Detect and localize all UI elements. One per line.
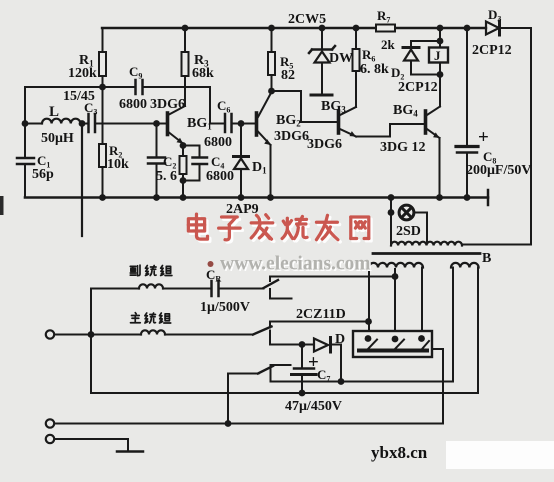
transistor BG3 base bar: [337, 111, 341, 133]
junction dot: [437, 71, 444, 78]
wire secondary right winding left end down: [452, 268, 454, 382]
svg-text:www.elecians.com: www.elecians.com: [220, 254, 371, 275]
wire R2 to bottom bus: [102, 167, 104, 198]
junction dot: [436, 194, 443, 201]
resistor R6: [353, 49, 360, 71]
svg-text:6800: 6800: [204, 135, 232, 150]
junction dot: [267, 194, 274, 201]
wire emitter RC loop bottom: [183, 165, 200, 181]
resistor in BG1 emitter: [180, 156, 187, 174]
wire DW branch: [321, 28, 323, 49]
junction dot: [225, 420, 232, 427]
svg-text:2k: 2k: [381, 37, 396, 52]
svg-text:56p: 56p: [32, 167, 54, 182]
transistor BG4 base bar: [424, 111, 428, 133]
capacitor C8: [456, 147, 478, 153]
svg-text:2CP12: 2CP12: [472, 43, 512, 58]
inductor aux winding coil: [139, 284, 163, 288]
switch S2 blade: [253, 327, 272, 335]
wire bottom bus of oscillator section: [25, 196, 488, 199]
wire R1 bottom to node: [102, 76, 104, 87]
transistor BG3 collector: [340, 107, 356, 115]
diode D2: [403, 48, 419, 61]
transistor BG2 collector: [258, 92, 272, 117]
switch S1 upper contact: [270, 277, 395, 282]
switch S2 upper contact to transformer: [270, 322, 369, 328]
junction dot: [180, 142, 187, 149]
svg-text:10k: 10k: [107, 157, 129, 172]
transistor BG4 collector: [427, 107, 440, 116]
svg-text:2SD: 2SD: [396, 224, 421, 239]
junction dot: [319, 25, 326, 32]
wire secondary left end down to brush box: [368, 268, 370, 335]
junction dot: [418, 335, 425, 342]
transistor BG1 emitter arrowhead: [177, 138, 184, 144]
wire R1 branch: [102, 28, 104, 52]
label aux winding (fu rao zu): [130, 265, 172, 276]
junction dot: [365, 335, 372, 342]
svg-text:L: L: [49, 104, 59, 120]
wire BG1 emitter node: [182, 144, 184, 198]
junction dot: [388, 194, 395, 201]
wire primary to right rail: [462, 244, 531, 246]
diode D: [314, 338, 331, 353]
white box bottom right: [446, 441, 554, 469]
junction dot: [180, 177, 187, 184]
switch S3 blade: [258, 366, 273, 374]
capacitor C7 top lead: [301, 345, 303, 369]
wire secondary left right-end down: [421, 268, 423, 335]
resistor R5: [268, 52, 275, 75]
svg-text:5. 6: 5. 6: [156, 169, 177, 184]
junction dot: [238, 120, 245, 127]
junction dot: [437, 25, 444, 32]
inductor main winding coil: [141, 330, 165, 334]
capacitor CR: [212, 281, 219, 296]
junction dot: [299, 390, 306, 397]
wire lamp to primary left: [390, 213, 392, 246]
brush blade 3: [422, 341, 429, 349]
wire box output to bottom line: [432, 349, 443, 424]
svg-text:D: D: [335, 332, 345, 347]
relay J coil box: [429, 48, 448, 63]
svg-text:+: +: [478, 127, 489, 148]
winding secondary right scallops: [451, 263, 479, 268]
wire R3 branch from bus: [184, 28, 186, 52]
wire C1 to bottom bus: [24, 164, 26, 198]
svg-text:B: B: [482, 251, 491, 266]
wire C7 node to diode D: [302, 344, 313, 346]
node T3 stub end bar: [117, 450, 143, 453]
wire BG3 emitter to BG4 base: [356, 124, 424, 137]
wire R5 bottom to node: [271, 75, 273, 91]
wire top bus right of D3: [500, 27, 531, 29]
wire long link y393: [91, 392, 478, 394]
transistor BG3 emitter arrowhead: [350, 131, 357, 136]
wire lamp right side down to winding: [414, 213, 427, 244]
wire right rail: [530, 28, 532, 243]
wire BG4 emitter to bottom bus: [439, 138, 441, 198]
wire bottom line y423: [55, 423, 444, 425]
junction dot: [437, 38, 444, 45]
wire C9 to collector net: [144, 87, 225, 124]
wire C8 to bottom bus: [466, 153, 468, 198]
transistor BG2 emitter: [258, 132, 271, 146]
label main winding (zhu rao zu): [131, 313, 171, 323]
svg-text:3DG6: 3DG6: [150, 97, 185, 112]
wire R2 branch: [102, 87, 104, 144]
terminal T2: [46, 419, 54, 427]
junction dot: [182, 25, 189, 32]
wire DW down: [321, 63, 323, 94]
svg-text:DW: DW: [329, 51, 353, 66]
junction dot: [153, 120, 160, 127]
svg-text:3DG6: 3DG6: [307, 137, 342, 152]
junction dot: [99, 84, 106, 91]
switch S1 blade: [264, 280, 279, 288]
transistor BG4 emitter: [427, 129, 440, 138]
brush box of motor: [353, 331, 432, 357]
junction dot: [299, 341, 306, 348]
junction dot: [392, 336, 399, 343]
junction dot: [238, 194, 245, 201]
wire C6 to BG2 base: [233, 123, 256, 125]
wire node to BG3 base: [272, 91, 338, 122]
svg-text:2AP9: 2AP9: [226, 202, 259, 217]
terminal T1: [46, 330, 54, 338]
svg-text:120k: 120k: [68, 66, 97, 81]
junction dot: [392, 273, 399, 280]
svg-text:3DG 12: 3DG 12: [380, 140, 426, 155]
capacitor C3: [89, 114, 96, 132]
wire left column: [24, 87, 26, 158]
capacitor C2 branch from base wire: [156, 124, 158, 158]
capacitor C6: [225, 114, 232, 132]
diode D1: [234, 157, 249, 170]
junction dot: [153, 194, 160, 201]
resistor R3: [182, 52, 189, 76]
junction dot: [464, 25, 471, 32]
resistor R1: [99, 52, 106, 76]
svg-text:50μH: 50μH: [41, 131, 74, 146]
node terminal bar at end of bottom bus: [487, 190, 490, 205]
svg-text:6800: 6800: [206, 169, 234, 184]
svg-text:82: 82: [281, 68, 295, 83]
wire D1 to bottom bus: [240, 170, 242, 198]
svg-text:6. 8k: 6. 8k: [360, 62, 389, 77]
transistor BG1 emitter: [169, 133, 183, 144]
lamp 2SD: [399, 205, 414, 220]
winding secondary left scallops: [369, 263, 423, 268]
wire D2 to relay bottom node: [411, 61, 440, 75]
junction dot: [353, 25, 360, 32]
capacitor C1: [17, 158, 34, 164]
brush blade 2: [395, 340, 404, 350]
wire T1 to main node: [55, 334, 92, 336]
wire main winding feed: [91, 334, 141, 336]
wire coil to CR: [163, 288, 210, 290]
wire R6 branch: [355, 28, 357, 49]
junction dot: [464, 194, 471, 201]
junction dot: [268, 88, 275, 95]
wire left column of motor section: [90, 289, 92, 394]
inductor L: [42, 119, 80, 124]
resistor R2: [99, 144, 106, 167]
svg-text:J: J: [434, 48, 441, 63]
wire C8 branch: [466, 28, 468, 146]
transistor BG1 collector: [169, 106, 185, 115]
transistor BG2 emitter arrowhead: [264, 139, 270, 145]
svg-text:2CW5: 2CW5: [288, 12, 326, 27]
wire S3 pole arm: [228, 374, 259, 424]
wire C2 to bottom bus: [156, 164, 158, 198]
wire R6 to BG3 collector: [355, 71, 357, 107]
junction dot: [79, 120, 86, 127]
wire top supply bus: [102, 27, 486, 29]
node DW end bar: [311, 94, 332, 97]
transistor BG4 emitter arrowhead: [433, 132, 439, 138]
svg-text:2CZ11D: 2CZ11D: [296, 307, 346, 322]
svg-text:1μ/500V: 1μ/500V: [200, 300, 250, 315]
resistor R7 on bus: [376, 25, 395, 32]
junction dot: [22, 120, 29, 127]
wire C7 bottom lead: [301, 375, 303, 393]
wire base node horizontal y87: [25, 86, 134, 88]
diode D3 on bus: [486, 21, 500, 35]
wire lower link y381: [271, 381, 454, 383]
wire BG4 collector to relay node: [439, 75, 441, 107]
transistor BG3 emitter: [340, 129, 356, 137]
wire coil to switch S2: [165, 334, 253, 336]
svg-text:47μ/450V: 47μ/450V: [285, 399, 342, 414]
junction dot: [180, 194, 187, 201]
wire aux winding feed: [91, 288, 139, 290]
svg-text:3DG6: 3DG6: [274, 129, 309, 144]
wire D1 branch: [240, 124, 242, 157]
wire R3 bottom to BG1 collector: [184, 76, 186, 106]
capacitor C2: [148, 158, 165, 164]
winding primary scallops: [391, 242, 462, 246]
junction dot: [338, 378, 345, 385]
wire secondary centre tap down: [394, 269, 396, 334]
wire D cathode down to y381: [332, 345, 342, 382]
watermark www.elecians.com: [208, 254, 373, 277]
watermark red text dianzi fashao you wang: [188, 214, 371, 242]
svg-text:2CP12: 2CP12: [398, 80, 438, 95]
wire CR to switch S1: [220, 288, 264, 290]
wire T3 stub: [55, 439, 129, 450]
svg-text:6800: 6800: [119, 97, 147, 112]
wire stub below input node: [81, 124, 83, 237]
switch S2 lower contact to C7 node: [270, 331, 302, 345]
capacitor C7: [292, 369, 317, 375]
capacitor C9: [136, 80, 143, 94]
transistor BG1 base bar: [166, 113, 170, 135]
wire BG2 emitter to bottom bus: [270, 145, 272, 198]
wire relay top node to D2: [411, 41, 440, 47]
wire lamp branch: [390, 198, 392, 213]
switch S1 lower contact stub: [270, 289, 292, 299]
junction dot: [388, 209, 395, 216]
wire R5 branch: [271, 28, 273, 52]
transistor BG2 base bar: [255, 113, 259, 135]
svg-text:ybx8.cn: ybx8.cn: [371, 443, 428, 462]
wire C3 to BG1 base: [96, 123, 166, 125]
junction dot: [268, 25, 275, 32]
scan mark left edge: [0, 196, 4, 215]
wire emitter RC loop top: [183, 146, 200, 158]
transformer core: [373, 252, 480, 255]
zener DW: [309, 46, 335, 63]
junction dot: [365, 318, 372, 325]
svg-text:68k: 68k: [192, 66, 214, 81]
junction dot: [88, 331, 95, 338]
wire node A to L: [25, 123, 42, 125]
brush blade 1: [368, 340, 377, 350]
junction dot: [99, 194, 106, 201]
capacitor C4: [193, 158, 208, 165]
commutator bar: [359, 349, 427, 353]
svg-text:200μF/50V: 200μF/50V: [466, 163, 532, 178]
switch S3 contact bar: [270, 365, 272, 382]
switch S3 upper stub: [271, 364, 291, 366]
wire relay box bottom: [439, 63, 441, 75]
wire relay branch from bus: [439, 28, 441, 48]
terminal T3: [46, 435, 54, 443]
wire L to C3: [80, 123, 87, 125]
wire secondary right winding right end down: [477, 268, 479, 394]
